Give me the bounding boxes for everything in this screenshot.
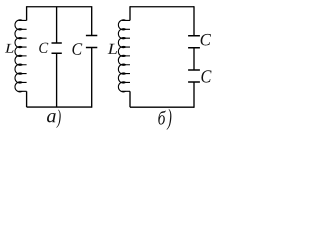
- wire: circuit a left top stub: [26, 6, 28, 20]
- capacitor C (right, circuit a) plates: [86, 36, 97, 48]
- capacitor C (bottom, circuit b) plates: [188, 70, 200, 82]
- inductor L1 coil (circuit a) loops: [15, 20, 22, 92]
- wire: circuit a right upper: [91, 6, 93, 35]
- wire: circuit a right lower: [91, 48, 93, 108]
- wire: circuit b right middle: [193, 48, 195, 70]
- wire: circuit b bottom: [130, 106, 194, 108]
- label C (right capacitor, circuit a): [72, 43, 82, 55]
- caption a) letter a: [47, 113, 56, 122]
- capacitor C (top, circuit b) plates: [188, 36, 200, 48]
- label C (top capacitor, circuit b): [201, 34, 211, 46]
- label L (circuit a): [5, 44, 14, 53]
- caption a) parenthesis: [56, 109, 60, 128]
- caption b) letter b: [158, 111, 166, 125]
- inductor L1 coil (circuit a) joint ticks: [18, 20, 26, 91]
- caption b) parenthesis: [167, 109, 172, 130]
- wire: circuit a middle branch lower: [56, 53, 58, 107]
- capacitor C (middle, circuit a) plates: [52, 43, 62, 53]
- wire: circuit b right upper: [193, 6, 195, 36]
- wire: circuit b left bottom stub: [129, 91, 131, 107]
- wire: circuit a left bottom stub: [26, 91, 28, 107]
- wire: circuit b right lower: [193, 82, 195, 108]
- wire: circuit b top: [130, 6, 194, 8]
- inductor L2 coil (circuit b) loops: [118, 20, 125, 92]
- label C (middle capacitor, circuit a): [39, 43, 48, 53]
- inductor L2 coil (circuit b) joint ticks: [122, 20, 130, 91]
- wire: circuit a middle branch upper: [56, 7, 58, 43]
- label C (bottom capacitor, circuit b): [201, 70, 211, 82]
- wire: circuit a top: [27, 6, 92, 8]
- label L (circuit b): [108, 44, 117, 54]
- wire: circuit a bottom: [27, 106, 92, 108]
- wire: circuit b left top stub: [129, 6, 131, 20]
